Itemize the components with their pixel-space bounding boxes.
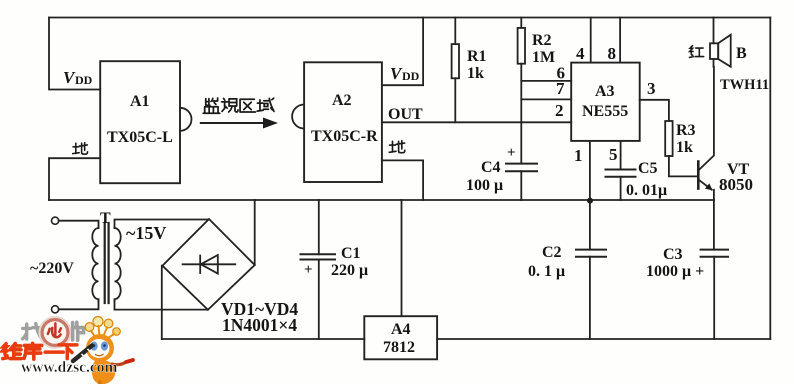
speaker horn bbox=[718, 35, 731, 67]
transistor collector bbox=[698, 67, 714, 171]
wire top +12V rail bbox=[49, 17, 770, 19]
svg-text:TWH11: TWH11 bbox=[720, 77, 769, 93]
wire top terminal to primary bbox=[59, 221, 99, 228]
char wei bbox=[3, 343, 21, 358]
svg-text:1N4001×4: 1N4001×4 bbox=[222, 315, 297, 335]
watermark mascot eyes bbox=[90, 341, 97, 350]
svg-text:C4: C4 bbox=[481, 159, 501, 176]
char xia bbox=[59, 345, 77, 359]
wire ground rail bbox=[49, 199, 714, 201]
label monitor zone char qu bbox=[240, 99, 255, 112]
svg-text:C5: C5 bbox=[638, 160, 658, 177]
wire bottom terminal to primary bbox=[59, 301, 99, 309]
svg-text:1: 1 bbox=[574, 146, 583, 165]
junction dot pin1/ground bbox=[587, 198, 593, 204]
wire bottom rail right bbox=[437, 338, 770, 340]
transistor emitter bbox=[698, 180, 712, 190]
watermark char xin red bbox=[48, 323, 61, 337]
svg-text:100 μ: 100 μ bbox=[466, 177, 503, 194]
svg-text:DD: DD bbox=[75, 73, 93, 87]
label monitor zone char yu bbox=[257, 98, 274, 111]
bridge rectifier diamond bbox=[162, 219, 254, 310]
bridge diode symbol bbox=[183, 263, 236, 265]
svg-text:TX05C-L: TX05C-L bbox=[107, 129, 173, 146]
watermark mascot mouth bbox=[96, 355, 104, 356]
watermark text weikuyixia red bbox=[3, 343, 77, 359]
wire pin1 drop bbox=[589, 141, 591, 200]
capacitor C4 bbox=[506, 163, 537, 165]
terminal circle bottom bbox=[52, 306, 59, 313]
svg-text:C3: C3 bbox=[663, 246, 683, 263]
svg-text:T: T bbox=[100, 210, 111, 227]
svg-text:1000 μ +: 1000 μ + bbox=[646, 263, 704, 280]
wire secondary bottom to bridge bbox=[115, 301, 208, 310]
IC A3 NE555 box bbox=[571, 63, 640, 141]
svg-text:A3: A3 bbox=[595, 83, 615, 100]
IC A2 box bbox=[304, 62, 382, 182]
svg-text:B: B bbox=[736, 45, 747, 62]
Chinese glyph strokes bbox=[73, 46, 704, 154]
label monitor zone char jian bbox=[203, 98, 220, 113]
arrow monitoring zone bbox=[201, 122, 268, 124]
svg-text:7812: 7812 bbox=[383, 339, 415, 356]
svg-text:R3: R3 bbox=[676, 122, 696, 139]
label red char hong bbox=[689, 46, 703, 58]
wire A1 ground lead bbox=[49, 158, 100, 200]
speaker body rect bbox=[710, 43, 718, 59]
watermark mascot leg bbox=[98, 382, 100, 384]
svg-text:3: 3 bbox=[647, 79, 656, 98]
svg-text:+: + bbox=[304, 262, 313, 278]
watermark pencil stripes bbox=[82, 350, 91, 358]
transistor Q VT base bar bbox=[697, 162, 700, 189]
svg-text:220 μ: 220 μ bbox=[331, 262, 368, 279]
watermark mascot arm right bbox=[112, 362, 126, 365]
transformer primary winding bbox=[92, 228, 98, 301]
svg-text:8050: 8050 bbox=[719, 175, 753, 194]
svg-text:R2: R2 bbox=[532, 32, 552, 49]
label ground char A2 bbox=[389, 141, 405, 153]
wire pin5 drop bbox=[620, 141, 622, 170]
watermark logo dzsc bbox=[3, 317, 133, 384]
transformer core bars bbox=[104, 223, 106, 303]
svg-text:TX05C-R: TX05C-R bbox=[311, 128, 378, 145]
svg-text:1k: 1k bbox=[467, 65, 484, 82]
svg-text:4: 4 bbox=[576, 44, 585, 63]
svg-text:A1: A1 bbox=[130, 93, 150, 110]
speaker B lead from rail bbox=[713, 18, 715, 44]
watermark mascot face bbox=[89, 339, 110, 358]
svg-text:~220V: ~220V bbox=[30, 260, 74, 277]
watermark mascot crown balls bbox=[85, 323, 94, 332]
char ku bbox=[24, 343, 42, 359]
svg-text:1k: 1k bbox=[676, 139, 693, 156]
capacitor C3 bbox=[701, 249, 728, 251]
label ground char A1 bbox=[73, 143, 88, 154]
wire emitter down to C3 bbox=[713, 190, 715, 250]
svg-text:~15V: ~15V bbox=[126, 223, 166, 243]
svg-text:www.dzsc.com: www.dzsc.com bbox=[21, 359, 118, 376]
wire OUT to pin2 bbox=[382, 121, 571, 123]
capacitor C2 bbox=[589, 200, 591, 250]
IC A4 7812 box bbox=[364, 316, 437, 359]
svg-text:0. 01μ: 0. 01μ bbox=[626, 182, 667, 199]
svg-text:8: 8 bbox=[608, 44, 617, 63]
wire A2 ground riser bbox=[382, 160, 423, 200]
capacitor C1 bbox=[318, 200, 320, 254]
svg-text:0. 1 μ: 0. 1 μ bbox=[528, 263, 565, 280]
wire pin7 stub bbox=[521, 98, 571, 100]
wire secondary top to bridge bbox=[115, 220, 210, 229]
wire bridge plus to ground rail bbox=[254, 200, 256, 265]
svg-text:A2: A2 bbox=[332, 92, 352, 109]
transistor emitter arrowhead bbox=[705, 183, 713, 190]
resistor R3 bbox=[665, 121, 672, 156]
svg-text:C2: C2 bbox=[542, 244, 562, 261]
svg-text:5: 5 bbox=[609, 145, 618, 164]
wire bridge minus to bottom rail bbox=[161, 266, 163, 339]
watermark mascot body bbox=[92, 360, 115, 384]
wire right edge bbox=[769, 18, 771, 340]
wire pin3 to R3 bbox=[640, 100, 669, 121]
wire pin6 stub bbox=[521, 80, 571, 82]
watermark arm tip red bbox=[126, 360, 133, 362]
svg-text:2: 2 bbox=[555, 101, 564, 120]
svg-text:OUT: OUT bbox=[388, 106, 423, 123]
watermark char zhao grey bbox=[23, 324, 43, 340]
transducer bump A1 bbox=[180, 108, 192, 131]
capacitor C5 bbox=[606, 169, 636, 171]
svg-text:NE555: NE555 bbox=[582, 103, 628, 120]
wire bottom rail left bbox=[162, 338, 364, 340]
wire pin8 bbox=[619, 18, 621, 63]
resistor R1 bbox=[454, 18, 456, 45]
wire A4 input riser bbox=[401, 200, 403, 316]
watermark magnifier ring bbox=[42, 320, 68, 346]
wire speaker to collector bbox=[713, 59, 715, 67]
svg-text:R1: R1 bbox=[467, 48, 487, 65]
char yi bbox=[45, 351, 63, 354]
watermark pencil dark bbox=[73, 346, 92, 362]
watermark mascot head bbox=[86, 334, 114, 362]
transducer bump A2 bbox=[292, 105, 304, 129]
svg-text:+: + bbox=[507, 145, 516, 161]
watermark char pian grey bbox=[73, 322, 84, 340]
svg-text:7: 7 bbox=[556, 79, 565, 98]
watermark mascot antennae stems bbox=[91, 326, 114, 340]
wire left VDD drop bbox=[49, 18, 100, 90]
resistor R2 bbox=[520, 18, 522, 28]
svg-text:C1: C1 bbox=[341, 245, 361, 262]
svg-text:A4: A4 bbox=[391, 321, 411, 338]
transformer secondary winding bbox=[115, 228, 121, 301]
IC A1 box bbox=[100, 61, 180, 183]
terminal circle top bbox=[52, 217, 59, 224]
wire pin4 bbox=[590, 18, 592, 63]
svg-text:1M: 1M bbox=[532, 49, 555, 66]
label monitor zone char shi bbox=[222, 98, 238, 112]
svg-text:DD: DD bbox=[402, 69, 420, 83]
wire A2 VDD riser bbox=[382, 18, 423, 86]
